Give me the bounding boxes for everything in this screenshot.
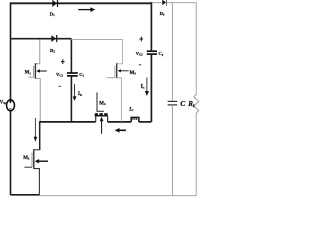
wire top output (thin): [151, 2, 196, 4]
wire M1 drain: [35, 40, 39, 64]
label VC2 with polarity: [136, 37, 143, 65]
svg-text:C2: C2: [158, 51, 163, 57]
wire bottom left (thick): [11, 194, 40, 196]
transistor M3: [107, 63, 136, 78]
wire C2 branch lower: [150, 54, 152, 122]
wire left rail lower: [10, 111, 12, 195]
wire mid bus to C2 corner: [139, 121, 152, 123]
svg-text:C: C: [180, 99, 186, 108]
transistor M2: [23, 149, 48, 169]
diode D1: [50, 0, 58, 17]
resistor RL: [187, 95, 199, 114]
svg-text:C1: C1: [79, 72, 84, 78]
svg-text:RL: RL: [187, 100, 196, 108]
current arrow iLr: [115, 128, 126, 133]
wire C1 lower branch: [70, 76, 72, 122]
current arrow iC2: [141, 78, 149, 97]
current arrow iL1: [73, 84, 82, 101]
wire M2 drain: [39, 121, 41, 150]
wire output cap branch: [171, 2, 173, 101]
wire D2 bus: [11, 38, 72, 40]
svg-text:Lr: Lr: [128, 107, 134, 112]
wire bottom ground return (thin): [40, 195, 197, 197]
svg-text:Ib: Ib: [78, 91, 82, 97]
wire C2 branch upper: [150, 2, 152, 50]
wire thin link D2bus to M3: [71, 40, 122, 64]
capacitor C1: [67, 72, 85, 78]
inductor Lr: [128, 107, 139, 122]
wire load branch upper: [195, 2, 197, 94]
wire M1 source: [35, 79, 40, 122]
wire left rail upper: [10, 2, 12, 100]
wire load branch lower: [195, 113, 197, 196]
svg-text:M3: M3: [130, 71, 137, 76]
diode D2: [50, 35, 57, 54]
wire mid bus left section: [40, 121, 96, 123]
svg-text:D3: D3: [160, 11, 165, 17]
wire mid bus right section: [108, 121, 132, 123]
wire top bus: [11, 2, 152, 4]
capacitor C2: [147, 51, 164, 57]
svg-text:VC1: VC1: [56, 72, 63, 78]
svg-text:Ic: Ic: [141, 84, 145, 90]
capacitor C: [168, 99, 187, 108]
svg-text:D1: D1: [50, 11, 55, 17]
label VC1 with polarity: [56, 59, 65, 86]
transistor M4: [95, 92, 108, 133]
wire C1 upper branch: [70, 39, 72, 73]
transistor M1: [25, 63, 47, 79]
wire M3 source down: [117, 78, 122, 122]
current arrow io (top): [78, 7, 95, 12]
wire M2 source: [34, 169, 40, 195]
svg-text:M1: M1: [25, 71, 32, 76]
voltage source Vin: [0, 100, 15, 111]
svg-text:M2: M2: [23, 156, 30, 161]
current arrow into M2: [34, 118, 38, 142]
svg-text:M4: M4: [99, 102, 106, 107]
svg-text:VC2: VC2: [136, 51, 143, 57]
svg-text:Vin: Vin: [0, 101, 6, 106]
svg-text:D2: D2: [50, 48, 55, 54]
wire output cap lower: [171, 105, 173, 196]
diode D3: [160, 0, 167, 16]
